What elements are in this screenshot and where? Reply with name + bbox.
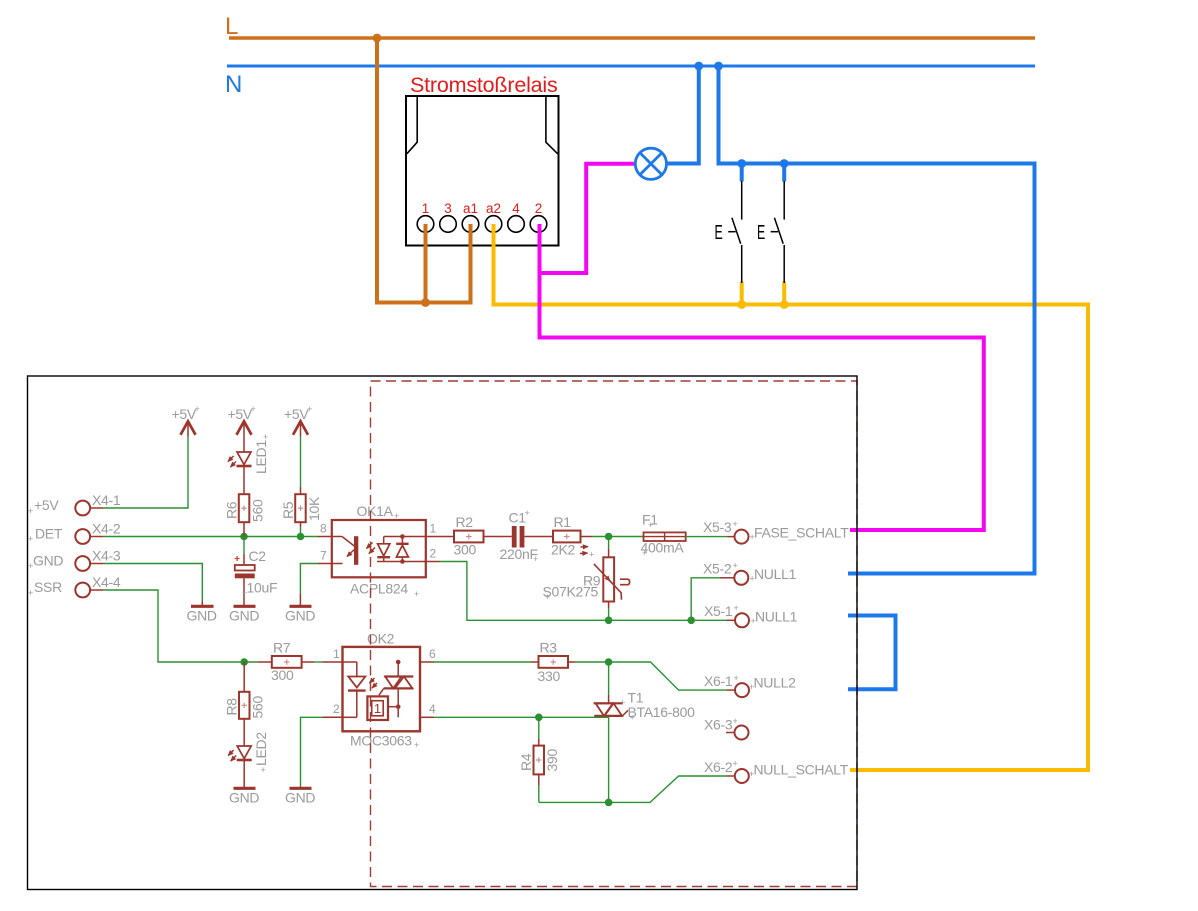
supply symbol +5V no.1 <box>181 421 196 435</box>
svg-text:+: + <box>195 404 200 414</box>
connector pin X6-3 <box>735 726 749 740</box>
triac T1 <box>594 702 623 704</box>
wire net DET X4-2 to OK1A pin8 <box>104 536 318 538</box>
wire net X5-2 NULL1 <box>691 578 720 621</box>
junction yellow switch2 <box>780 300 789 309</box>
connector pin X5-1 <box>735 613 749 627</box>
junction N drop1 <box>694 62 703 71</box>
svg-text:SSR: SSR <box>34 579 62 595</box>
relay pin terminal a1 <box>462 216 479 233</box>
svg-text:NULL1: NULL1 <box>755 609 798 625</box>
OK2 input LED <box>343 662 357 717</box>
ground symbol GND (C2) <box>234 605 256 608</box>
svg-text:X5-2: X5-2 <box>703 561 732 577</box>
svg-text:GND: GND <box>229 608 259 624</box>
svg-text:DET: DET <box>35 526 63 542</box>
wire blue switch1 stub <box>740 164 744 182</box>
svg-text:+: + <box>28 588 33 598</box>
svg-text:1: 1 <box>430 522 437 536</box>
svg-text:560: 560 <box>250 696 266 719</box>
svg-text:2K2: 2K2 <box>551 542 576 558</box>
svg-text:330: 330 <box>538 668 561 684</box>
connector pin X4-2 <box>75 529 90 544</box>
svg-text:+: + <box>733 759 738 769</box>
OK2 zero-cross block <box>367 696 388 720</box>
svg-text:Stromstoßrelais: Stromstoßrelais <box>410 73 558 97</box>
svg-text:+: + <box>261 765 266 775</box>
svg-text:+: + <box>263 432 268 442</box>
junction yellow switch1 <box>737 300 746 309</box>
svg-text:LED1: LED1 <box>253 440 269 474</box>
svg-text:+: + <box>749 682 754 692</box>
svg-text:+: + <box>734 603 739 613</box>
wire L phase line <box>229 36 1035 39</box>
svg-text:4: 4 <box>429 702 436 716</box>
svg-text:+: + <box>620 698 625 708</box>
connector pin X4-3 <box>75 556 90 571</box>
switch S2 pushbutton <box>771 181 785 283</box>
svg-text:300: 300 <box>454 542 477 558</box>
wire net X4-1 to +5V <box>104 437 188 508</box>
relay K1 clip right <box>546 97 558 154</box>
wire blue N drop to switches and NULL1 <box>719 66 1035 574</box>
svg-text:+: + <box>750 574 755 584</box>
junction DET/R5 <box>297 533 305 541</box>
svg-text:+5V: +5V <box>228 406 253 422</box>
svg-text:GND: GND <box>229 790 259 806</box>
schematic sheet border <box>28 376 858 890</box>
junction T1 bottom <box>605 799 613 807</box>
connector pin X6-2 <box>735 769 749 783</box>
lamp E1 <box>635 148 666 179</box>
svg-text:+: + <box>394 511 399 521</box>
supply symbol +5V no.3 <box>293 421 308 435</box>
svg-text:GND: GND <box>187 608 217 624</box>
svg-text:+: + <box>733 519 738 529</box>
junction X5-2 branch <box>687 617 695 625</box>
svg-text:+: + <box>630 713 635 723</box>
LED LED2 <box>237 746 251 759</box>
board outline dashed <box>371 381 858 887</box>
ground symbol GND (LED2) <box>234 787 256 790</box>
svg-text:R1: R1 <box>554 514 572 530</box>
wire net R3 to X6-1 <box>609 662 727 690</box>
svg-text:+5V: +5V <box>284 406 309 422</box>
svg-text:NULL2: NULL2 <box>754 675 797 691</box>
svg-text:E: E <box>715 221 723 244</box>
resistor R7 <box>258 661 272 663</box>
junction DET/R6 <box>240 533 248 541</box>
svg-text:+: + <box>28 506 33 516</box>
svg-text:E: E <box>757 221 765 244</box>
resistor R5 <box>300 437 302 487</box>
svg-text:R6: R6 <box>224 501 240 519</box>
svg-text:X6-1: X6-1 <box>704 673 733 689</box>
OK1A pin stubs <box>318 536 332 538</box>
junction N drop2 <box>714 62 723 71</box>
wire magenta pin2 to FASE_SCHALT <box>540 224 984 530</box>
relay K1 clip left <box>407 97 417 154</box>
svg-text:10uF: 10uF <box>247 580 278 596</box>
junction R1/R9 <box>605 533 613 541</box>
svg-text:BTA16-800: BTA16-800 <box>628 704 696 720</box>
svg-text:R5: R5 <box>280 501 296 519</box>
relay pin terminal 1 <box>417 216 434 233</box>
resistor R2 <box>440 536 455 538</box>
relay pin terminal 2 <box>530 216 547 233</box>
svg-text:X4-4: X4-4 <box>92 574 121 590</box>
svg-text:X4-2: X4-2 <box>92 521 121 537</box>
wire N neutral line <box>227 65 1035 68</box>
wire net SSR X4-4 to R7 <box>104 590 258 662</box>
wire blue switch2 stub <box>782 164 786 182</box>
svg-text:NULL1: NULL1 <box>754 566 797 582</box>
svg-text:390: 390 <box>544 749 560 772</box>
svg-text:a1: a1 <box>463 201 478 216</box>
svg-text:S07K275: S07K275 <box>543 584 599 600</box>
optocoupler OK2 body <box>343 647 421 731</box>
svg-text:+: + <box>734 673 739 683</box>
OK2 internal triac <box>379 662 398 717</box>
svg-text:6: 6 <box>429 647 436 661</box>
svg-text:+5V: +5V <box>34 497 59 513</box>
svg-text:10K: 10K <box>306 496 322 521</box>
capacitor C1 <box>512 526 517 548</box>
svg-text:+: + <box>750 532 755 542</box>
svg-text:X5-3: X5-3 <box>703 519 732 535</box>
junction R9 bottom <box>605 617 613 625</box>
wire net OK2 pin6 to R3 <box>434 661 531 663</box>
resistor R4 <box>538 717 540 739</box>
svg-text:OK1A: OK1A <box>357 503 394 519</box>
wire net OK1A pin7 GND <box>300 564 318 595</box>
junction orange bottom <box>421 298 430 307</box>
svg-text:300: 300 <box>271 667 294 683</box>
wire orange L drop to relay <box>377 38 471 303</box>
svg-text:220nF: 220nF <box>500 546 538 562</box>
OK1A input emitter <box>332 537 357 564</box>
wire net OK2 pin4 to T1 <box>434 716 609 718</box>
wire net R1 to F1 <box>592 536 644 538</box>
connector pin X5-2 <box>734 571 748 585</box>
svg-text:C2: C2 <box>249 548 267 564</box>
wire net OK2 pin2 GND <box>301 717 323 787</box>
OK1A light arrows <box>367 543 373 549</box>
svg-text:X4-3: X4-3 <box>92 548 121 564</box>
svg-text:MOC3063: MOC3063 <box>350 733 412 749</box>
svg-text:+: + <box>545 592 550 602</box>
OK1A output diodes <box>377 537 426 562</box>
wire net OK1A pin2 to X5-1 <box>440 562 727 621</box>
svg-text:+: + <box>251 404 256 414</box>
svg-text:R2: R2 <box>456 514 474 530</box>
svg-text:X6-2: X6-2 <box>704 759 733 775</box>
capacitor C2 plus mark <box>235 556 240 561</box>
wire orange relay pin1 drop <box>424 224 428 303</box>
junction SSR/R8 <box>240 658 248 666</box>
junction R4 top <box>535 714 543 722</box>
svg-text:4: 4 <box>512 201 520 216</box>
svg-text:R3: R3 <box>540 640 558 656</box>
resistor R1 <box>553 531 581 543</box>
ground symbol GND (OK1A) <box>290 605 312 608</box>
svg-text:8: 8 <box>320 522 327 536</box>
wire yellow a2 to switches to NULL_SCHALT <box>494 224 1089 770</box>
svg-text:2: 2 <box>535 201 543 216</box>
capacitor C2 polarized <box>243 537 245 555</box>
OK2 light arrows <box>370 678 375 683</box>
op-amp substitute: optocoupler OK1A body <box>332 520 426 577</box>
wire net F1 to X5-3 <box>686 536 728 538</box>
svg-text:X5-1: X5-1 <box>704 603 733 619</box>
svg-text:1: 1 <box>422 201 430 216</box>
svg-text:7: 7 <box>320 549 327 563</box>
svg-text:GND: GND <box>33 553 63 569</box>
svg-text:N: N <box>225 71 242 98</box>
wire net T1 bottom to X6-2 <box>608 717 610 802</box>
connector pin X4-4 <box>75 583 90 598</box>
svg-text:R7: R7 <box>273 640 291 656</box>
junction R3/T1 <box>605 658 613 666</box>
wire net T1 top <box>608 662 610 695</box>
connector pin X5-3 <box>735 530 749 544</box>
svg-text:R8: R8 <box>224 698 240 716</box>
svg-text:2: 2 <box>333 702 340 716</box>
LED LED1 <box>243 437 245 452</box>
wire yellow switch1 stub <box>740 283 744 305</box>
relay pin terminal 3 <box>440 216 457 233</box>
ground symbol GND (OK2) <box>290 787 312 790</box>
svg-text:NULL_SCHALT: NULL_SCHALT <box>754 762 849 778</box>
svg-text:a2: a2 <box>486 201 501 216</box>
svg-text:+: + <box>733 561 738 571</box>
relay pin terminal 4 <box>508 216 525 233</box>
junction blue switch2 <box>780 159 789 168</box>
relay K1 body <box>406 96 559 246</box>
wire blue NULL1 bracket X5-1 to X6-1 <box>848 616 896 690</box>
svg-text:1: 1 <box>374 701 381 716</box>
fuse F1 <box>644 532 686 541</box>
junction blue switch1 <box>737 159 746 168</box>
wire yellow switch2 stub <box>782 283 786 305</box>
svg-text:+: + <box>589 550 594 560</box>
relay pin terminal a2 <box>485 216 502 233</box>
resistor R6 <box>239 494 250 522</box>
svg-text:+: + <box>414 589 419 599</box>
svg-text:ACPL824: ACPL824 <box>350 581 408 597</box>
svg-text:+: + <box>414 740 419 750</box>
svg-text:+: + <box>307 404 312 414</box>
wire net X4-3 GND <box>104 564 203 602</box>
varistor R9 <box>608 537 610 550</box>
svg-text:2: 2 <box>430 547 437 561</box>
svg-text:GND: GND <box>285 608 315 624</box>
svg-text:+: + <box>749 769 754 779</box>
OK2 pin2 stub left <box>323 716 343 718</box>
svg-text:L: L <box>225 13 238 40</box>
svg-text:+: + <box>525 508 530 518</box>
svg-text:1: 1 <box>333 647 340 661</box>
wire magenta lamp to relay pin2 <box>540 164 637 273</box>
svg-text:+: + <box>28 561 33 571</box>
svg-text:+: + <box>642 548 647 558</box>
OK2 pin stubs right <box>420 661 434 663</box>
svg-text:3: 3 <box>444 201 452 216</box>
ground symbol GND (X4-3) <box>191 605 214 608</box>
svg-text:+: + <box>733 716 738 726</box>
svg-text:LED2: LED2 <box>253 732 269 766</box>
junction L tap <box>373 34 382 43</box>
resistor R3 <box>531 661 539 663</box>
svg-text:+: + <box>533 554 538 564</box>
supply symbol +5V no.2 <box>237 421 252 435</box>
svg-text:X6-3: X6-3 <box>704 717 733 733</box>
connector pin X6-1 <box>735 683 749 697</box>
svg-text:+: + <box>751 616 756 626</box>
svg-text:+: + <box>28 534 33 544</box>
svg-text:560: 560 <box>250 499 266 522</box>
wire blue N drop to lamp <box>667 66 699 164</box>
svg-text:FASE_SCHALT: FASE_SCHALT <box>754 525 849 541</box>
svg-text:+: + <box>648 520 653 530</box>
switch S1 pushbutton <box>728 181 742 283</box>
svg-text:GND: GND <box>285 790 315 806</box>
svg-text:R4: R4 <box>518 753 534 771</box>
svg-text:X4-1: X4-1 <box>92 492 121 508</box>
connector pin X4-1 <box>75 501 90 516</box>
resistor R8 <box>243 662 245 692</box>
svg-text:+5V: +5V <box>172 406 197 422</box>
svg-text:+: + <box>242 588 247 598</box>
